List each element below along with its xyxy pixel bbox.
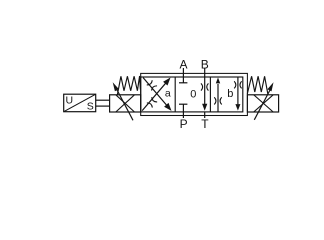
position 0: flow B to T with arrow bbox=[202, 77, 207, 111]
port T stub bbox=[204, 112, 206, 118]
position 0: blocked port A bbox=[179, 77, 187, 83]
throttle on b B-T path bbox=[234, 81, 241, 88]
position b: flow B to T down arrow bbox=[235, 77, 240, 111]
position b: flow P to A up arrow bbox=[216, 78, 220, 112]
port B stub bbox=[204, 68, 206, 77]
solenoid right (box with X) bbox=[247, 95, 278, 112]
valve body: three position squares bbox=[141, 77, 243, 112]
svg-text:U: U bbox=[66, 95, 74, 107]
electrical connector wires bbox=[96, 100, 110, 106]
centering spring right bbox=[247, 76, 267, 94]
port P stub bbox=[182, 112, 184, 118]
svg-text:a: a bbox=[165, 88, 171, 100]
proportional adjustment arrow right bbox=[254, 90, 269, 119]
svg-text:B: B bbox=[201, 57, 209, 71]
position a: crossed flow path P-B bbox=[143, 78, 171, 111]
control electronics box U/S bbox=[64, 94, 96, 112]
valve envelope (proportional) bbox=[141, 73, 248, 115]
throttle on a lower path bbox=[147, 97, 157, 107]
port A stub bbox=[182, 68, 184, 77]
svg-text:b: b bbox=[227, 88, 233, 100]
svg-text:S: S bbox=[87, 100, 94, 112]
svg-text:T: T bbox=[201, 117, 209, 131]
position 0: blocked port P bbox=[179, 104, 187, 112]
throttle on 0 B-T path bbox=[201, 83, 208, 90]
svg-text:0: 0 bbox=[190, 89, 196, 101]
throttle on a upper path bbox=[147, 80, 157, 90]
position a: crossed flow path A-T bbox=[142, 78, 170, 111]
centering spring left bbox=[117, 76, 140, 95]
solenoid left (box with X) bbox=[110, 95, 141, 112]
throttle on b P-A path bbox=[214, 97, 221, 104]
svg-text:P: P bbox=[180, 117, 188, 131]
svg-text:A: A bbox=[179, 57, 187, 71]
proportional adjustment arrow left bbox=[117, 90, 133, 121]
